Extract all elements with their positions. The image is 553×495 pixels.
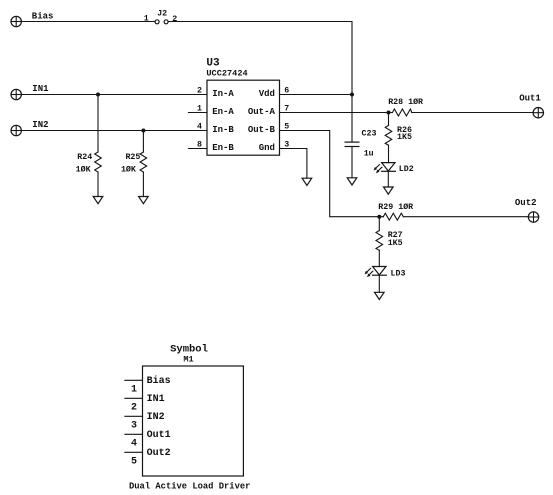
svg-text:1ØK: 1ØK [121, 165, 136, 175]
wire Gnd pin 3 [280, 149, 307, 179]
connector J2 [144, 10, 177, 24]
svg-text:Vdd: Vdd [259, 89, 275, 99]
resistor R26 [385, 113, 412, 163]
svg-text:R25: R25 [125, 153, 140, 162]
svg-text:J2: J2 [157, 10, 167, 19]
svg-text:In-A: In-A [212, 89, 234, 99]
svg-text:Out2: Out2 [515, 198, 537, 208]
LED LD2 [374, 163, 414, 187]
resistor R27 [376, 217, 403, 267]
svg-text:1: 1 [144, 15, 149, 24]
port Bias [11, 11, 53, 26]
svg-text:R29 1ØR: R29 1ØR [378, 202, 413, 212]
op-amp U1: IC U3 UCC27424 [206, 58, 279, 156]
svg-text:IN1: IN1 [32, 84, 49, 94]
resistor R24 [76, 95, 102, 197]
svg-text:En-B: En-B [212, 143, 234, 153]
svg-text:1: 1 [131, 384, 137, 395]
ground under R24 [93, 197, 103, 204]
svg-text:4: 4 [197, 122, 202, 131]
capacitor C23 [345, 95, 377, 178]
resistor R25 [121, 131, 147, 197]
port IN1 [11, 84, 49, 100]
wire En-A stub pin 1 [188, 112, 207, 114]
wire R28 to Out1 [412, 112, 533, 114]
node Vdd/Bias junction [350, 93, 354, 97]
symbol M1 box [143, 343, 244, 476]
pin 4 stub (Out1) [125, 433, 143, 435]
pin 5 stub (Out2) [125, 451, 143, 453]
node Out-A/R26 junction [387, 111, 391, 115]
svg-text:4: 4 [131, 438, 137, 449]
ground under C23 [347, 178, 357, 185]
svg-text:UCC27424: UCC27424 [206, 69, 247, 79]
port IN2 [11, 120, 49, 136]
svg-text:2: 2 [172, 15, 177, 24]
svg-text:IN2: IN2 [147, 412, 165, 423]
svg-text:IN1: IN1 [147, 394, 165, 405]
svg-text:En-A: En-A [212, 107, 234, 117]
ground under LD3 [375, 292, 385, 299]
node Out-B/R27 junction [377, 215, 381, 219]
svg-text:1K5: 1K5 [397, 133, 412, 142]
wire Vdd pin 6 [280, 94, 353, 96]
svg-text:LD3: LD3 [391, 270, 406, 279]
svg-text:LD2: LD2 [399, 165, 414, 174]
svg-text:Dual Active Load Driver: Dual Active Load Driver [129, 482, 250, 492]
wire R29 to Out2 [403, 216, 528, 218]
svg-text:1u: 1u [364, 150, 374, 159]
LED LD3 [365, 267, 406, 293]
svg-text:R28 1ØR: R28 1ØR [388, 97, 423, 107]
resistor R29 [378, 202, 413, 220]
ground at pin 3 [302, 178, 312, 185]
svg-text:2: 2 [131, 402, 137, 413]
wire Bias to J2 pin1 [21, 21, 155, 23]
svg-text:Out-A: Out-A [248, 107, 276, 117]
svg-text:R24: R24 [77, 153, 92, 162]
svg-text:3: 3 [131, 420, 137, 431]
port Out1 [519, 93, 543, 118]
resistor R28 [388, 97, 423, 116]
svg-text:Bias: Bias [147, 375, 171, 387]
svg-text:Out2: Out2 [147, 448, 171, 459]
wire IN1 to pin 2 [21, 94, 207, 96]
svg-text:5: 5 [131, 456, 137, 467]
wire En-B stub pin 8 [188, 148, 207, 150]
ground under LD2 [384, 187, 394, 194]
svg-text:Out1: Out1 [519, 93, 541, 103]
node IN2/R25 junction [141, 129, 145, 133]
svg-text:2: 2 [197, 86, 202, 95]
svg-text:1K5: 1K5 [388, 239, 403, 248]
port Out2 [515, 198, 539, 222]
svg-text:In-B: In-B [212, 125, 234, 135]
node IN1/R24 junction [96, 93, 100, 97]
wire Out-B pin 5 [280, 131, 384, 217]
ground under R25 [139, 197, 149, 204]
svg-text:Out1: Out1 [147, 430, 171, 441]
wire IN2 to pin 4 [21, 130, 207, 132]
pin 1 stub (Bias) [125, 379, 143, 381]
wire Out-A pin 7 [280, 112, 393, 114]
svg-text:Out-B: Out-B [248, 125, 276, 135]
svg-text:1ØK: 1ØK [76, 165, 91, 175]
svg-text:Bias: Bias [32, 11, 54, 21]
svg-text:M1: M1 [183, 354, 193, 364]
svg-text:C23: C23 [362, 130, 377, 139]
pin 3 stub (IN2) [125, 415, 143, 417]
svg-text:Gnd: Gnd [259, 143, 275, 153]
wire J2 pin2 to Vdd corner [168, 22, 352, 95]
svg-text:IN2: IN2 [32, 120, 48, 130]
pin 2 stub (IN1) [125, 397, 143, 399]
